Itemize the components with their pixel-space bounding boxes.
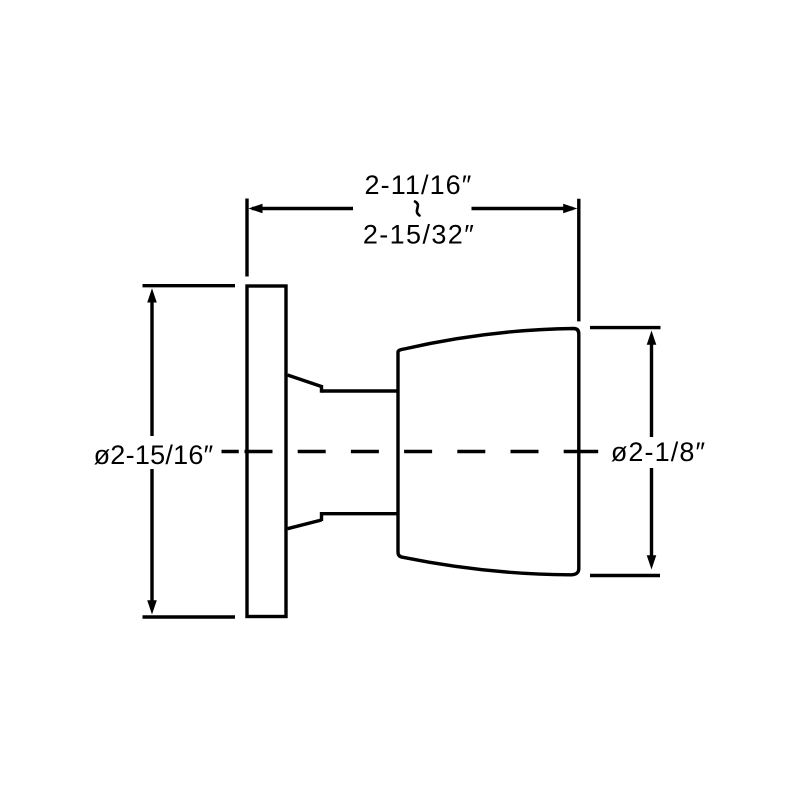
neck taper top step xyxy=(320,385,323,393)
neck taper top edge xyxy=(288,375,322,387)
arrowhead left-dim down xyxy=(147,600,157,614)
neck taper bottom edge xyxy=(288,520,322,529)
neck taper bottom step xyxy=(320,512,323,521)
right dimension extension line top xyxy=(590,326,661,329)
centerline dashed (horizontal axis) xyxy=(222,450,239,453)
top dimension line left segment xyxy=(252,207,353,210)
shank stem top edge xyxy=(322,389,399,392)
arrowhead right-dim down xyxy=(647,555,657,569)
top dimension extension line left xyxy=(245,199,248,277)
top dimension extension line right xyxy=(577,199,580,322)
right dimension line lower segment xyxy=(650,468,653,557)
left dimension line upper segment xyxy=(150,300,153,436)
arrowhead left-dim up xyxy=(147,288,157,302)
left dimension line lower segment xyxy=(150,469,153,603)
top dimension line right segment xyxy=(472,207,574,210)
svg-text:ø2-15/16″: ø2-15/16″ xyxy=(94,440,214,470)
shank stem bottom edge xyxy=(322,512,399,515)
svg-text:2-11/16″: 2-11/16″ xyxy=(365,170,473,200)
left dimension extension line bottom xyxy=(143,615,236,618)
knob body outline xyxy=(398,329,579,575)
svg-text:2-15/32″: 2-15/32″ xyxy=(363,220,475,250)
right dimension extension line bottom xyxy=(590,574,660,577)
arrowhead top-dim left xyxy=(248,204,262,214)
right dimension line upper segment xyxy=(650,343,653,437)
rose backplate rectangle xyxy=(247,286,286,617)
svg-text:ø2-1/8″: ø2-1/8″ xyxy=(611,437,706,467)
left dimension extension line top xyxy=(143,284,236,287)
arrowhead right-dim up xyxy=(647,331,657,345)
squiggle tilde between top dimension values xyxy=(415,202,420,216)
arrowhead top-dim right xyxy=(563,204,577,214)
